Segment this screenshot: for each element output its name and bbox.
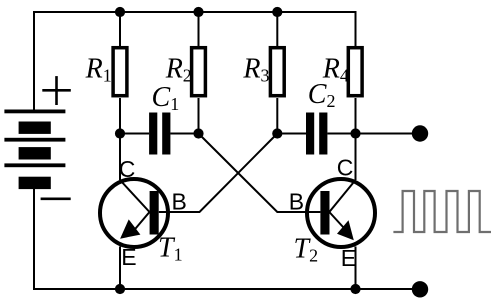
svg-text:E: E: [121, 244, 136, 270]
svg-text:B: B: [172, 189, 187, 215]
svg-text:B: B: [289, 189, 304, 215]
svg-text:E: E: [341, 245, 356, 271]
svg-text:C: C: [337, 154, 354, 180]
svg-text:C: C: [119, 156, 136, 182]
